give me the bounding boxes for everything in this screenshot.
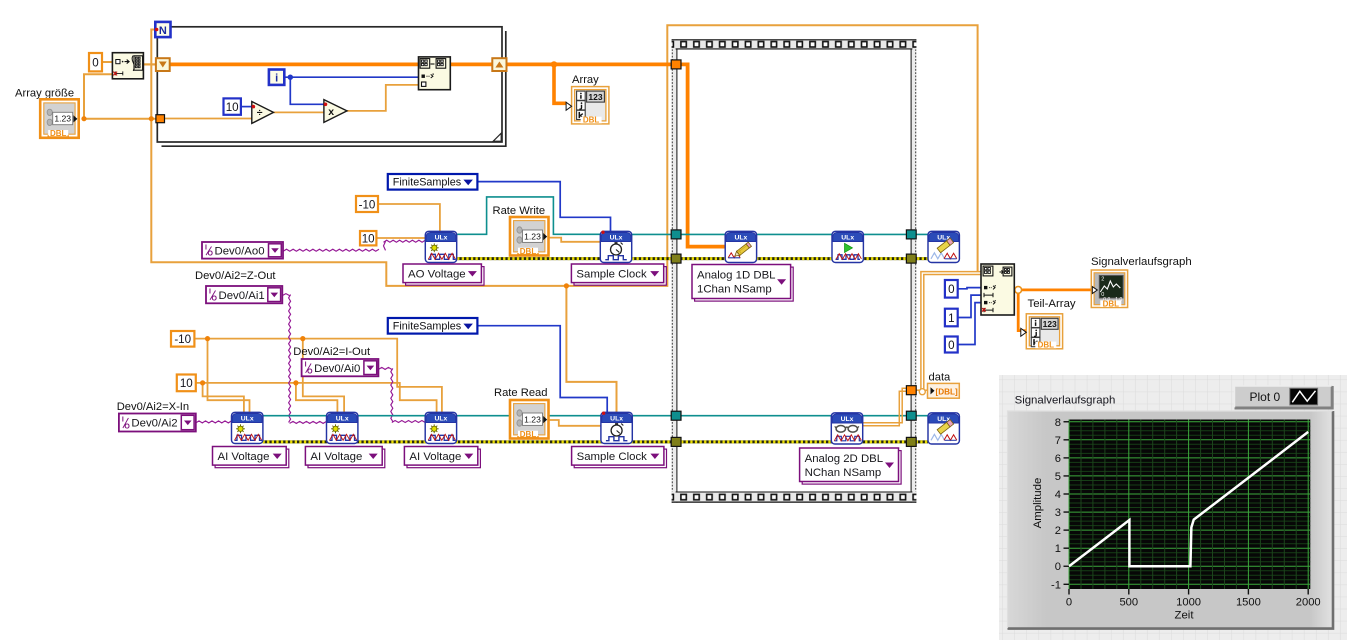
svg-text:Dev0/Ai2=I-Out: Dev0/Ai2=I-Out xyxy=(293,346,371,358)
svg-text:Analog 2D DBL: Analog 2D DBL xyxy=(805,453,884,465)
svg-text:ULx: ULx xyxy=(841,416,854,423)
svg-text:1500: 1500 xyxy=(1236,597,1261,609)
svg-text:500: 500 xyxy=(1119,597,1138,609)
svg-text:N: N xyxy=(159,25,167,37)
svg-text:123: 123 xyxy=(588,92,602,102)
svg-text:2: 2 xyxy=(1101,277,1104,283)
svg-text:ULx: ULx xyxy=(241,416,254,423)
svg-text:ULx: ULx xyxy=(434,416,447,423)
svg-text:10: 10 xyxy=(180,377,193,390)
svg-text:6: 6 xyxy=(1055,453,1061,465)
svg-text:1.23: 1.23 xyxy=(524,231,541,241)
svg-text:FiniteSamples: FiniteSamples xyxy=(393,321,462,333)
svg-text:5: 5 xyxy=(1055,471,1061,483)
svg-text:Dev0/Ai2=Z-Out: Dev0/Ai2=Z-Out xyxy=(195,270,276,282)
svg-text:Zeit: Zeit xyxy=(1175,610,1195,622)
svg-text:ULx: ULx xyxy=(734,235,747,242)
svg-text:7: 7 xyxy=(1055,435,1061,447)
svg-text:Analog 1D DBL: Analog 1D DBL xyxy=(697,270,776,282)
svg-text:Plot 0: Plot 0 xyxy=(1250,390,1281,404)
svg-text:1.23: 1.23 xyxy=(524,414,541,424)
svg-text:-1: -1 xyxy=(1051,579,1061,591)
svg-text:0: 0 xyxy=(1066,597,1072,609)
svg-text:0: 0 xyxy=(1055,561,1061,573)
svg-text:10: 10 xyxy=(226,101,239,114)
svg-text:Amplitude: Amplitude xyxy=(1032,478,1044,529)
svg-text:Signalverlaufsgraph: Signalverlaufsgraph xyxy=(1015,395,1116,407)
svg-text:Teil-Array: Teil-Array xyxy=(1028,298,1076,310)
svg-text:I: I xyxy=(122,417,124,424)
svg-text:Dev0/Ao0: Dev0/Ao0 xyxy=(215,246,265,258)
svg-text:Rate Read: Rate Read xyxy=(494,387,548,399)
svg-text:Array größe: Array größe xyxy=(15,88,74,100)
svg-text:DBL: DBL xyxy=(1038,341,1055,350)
svg-text:FiniteSamples: FiniteSamples xyxy=(393,177,462,189)
svg-text:1Chan NSamp: 1Chan NSamp xyxy=(697,284,772,296)
svg-text:1: 1 xyxy=(1055,543,1061,555)
svg-text:ULx: ULx xyxy=(610,416,623,423)
svg-text:-10: -10 xyxy=(359,198,376,211)
svg-text:Dev0/Ai0: Dev0/Ai0 xyxy=(314,363,360,375)
svg-text:Array: Array xyxy=(572,74,599,86)
svg-text:Signalverlaufsgraph: Signalverlaufsgraph xyxy=(1091,256,1192,268)
svg-text:1000: 1000 xyxy=(1176,597,1201,609)
svg-text:AI Voltage: AI Voltage xyxy=(310,451,362,463)
svg-text:3: 3 xyxy=(1055,507,1061,519)
svg-text:0: 0 xyxy=(948,283,954,296)
svg-text:Dev0/Ai2=X-In: Dev0/Ai2=X-In xyxy=(117,401,189,413)
svg-text:0: 0 xyxy=(948,339,954,352)
svg-text:0: 0 xyxy=(92,56,98,69)
svg-text:8: 8 xyxy=(1055,417,1061,429)
svg-text:Sample Clock: Sample Clock xyxy=(576,268,647,280)
svg-text:ULx: ULx xyxy=(336,416,349,423)
svg-text:ULx: ULx xyxy=(841,235,854,242)
svg-text:Dev0/Ai2: Dev0/Ai2 xyxy=(131,418,177,430)
svg-text:data: data xyxy=(929,372,952,384)
svg-text:x: x xyxy=(328,106,334,118)
svg-text:Dev0/Ai1: Dev0/Ai1 xyxy=(219,290,265,302)
svg-text:10: 10 xyxy=(362,232,375,245)
svg-text:1: 1 xyxy=(948,312,954,325)
svg-text:ULx: ULx xyxy=(610,235,623,242)
svg-text:4: 4 xyxy=(1055,489,1061,501)
svg-text:÷: ÷ xyxy=(257,107,263,119)
svg-text:Sample Clock: Sample Clock xyxy=(577,451,648,463)
svg-text:AO Voltage: AO Voltage xyxy=(408,268,466,280)
svg-text:DBL: DBL xyxy=(1103,299,1120,308)
svg-text:Rate Write: Rate Write xyxy=(493,205,546,217)
svg-text:2: 2 xyxy=(1055,525,1061,537)
svg-text:AI Voltage: AI Voltage xyxy=(409,451,461,463)
svg-text:AI Voltage: AI Voltage xyxy=(218,451,270,463)
svg-text:NChan NSamp: NChan NSamp xyxy=(805,467,882,479)
svg-text:DBL: DBL xyxy=(583,116,600,125)
svg-text:2000: 2000 xyxy=(1296,597,1321,609)
svg-text:123: 123 xyxy=(1043,319,1057,329)
svg-text:[DBL]: [DBL] xyxy=(936,388,959,397)
svg-text:-10: -10 xyxy=(174,333,191,346)
svg-text:ULx: ULx xyxy=(435,235,448,242)
svg-text:1.23: 1.23 xyxy=(54,114,71,124)
svg-text:i: i xyxy=(275,73,278,85)
